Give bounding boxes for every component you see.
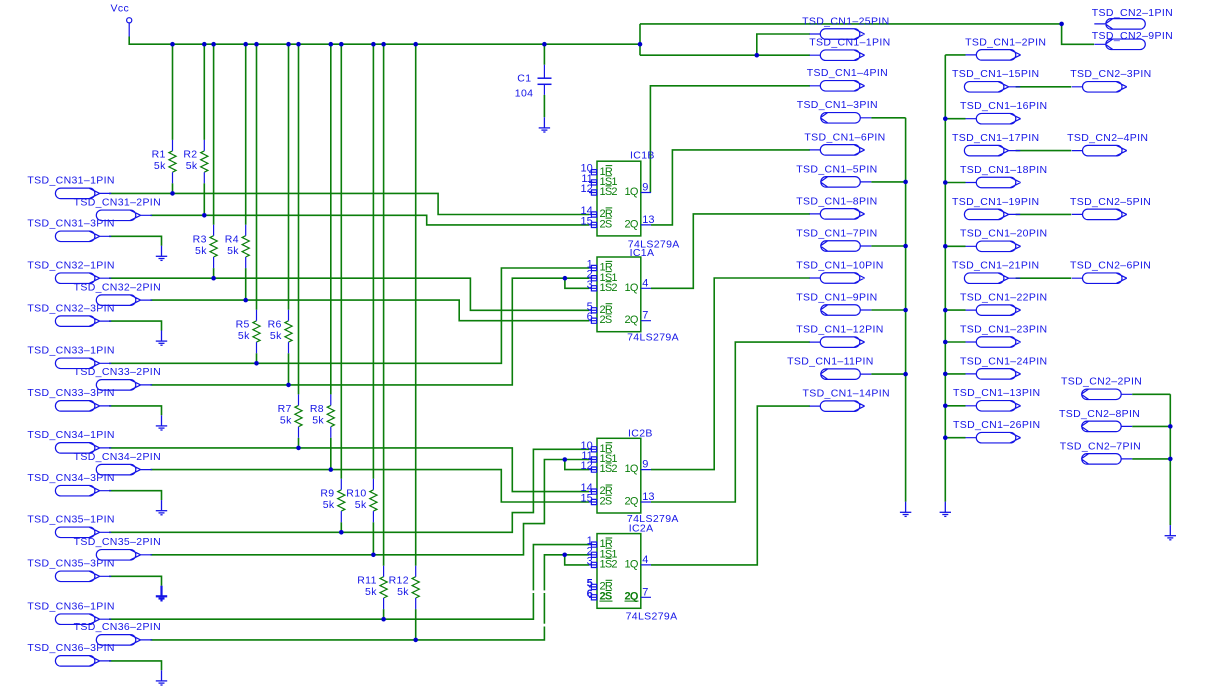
svg-text:5k: 5k — [397, 586, 409, 598]
svg-text:13: 13 — [642, 214, 654, 226]
svg-text:TSD_CN35–1PIN: TSD_CN35–1PIN — [27, 514, 114, 526]
svg-text:TSD_CN1–6PIN: TSD_CN1–6PIN — [804, 131, 885, 143]
svg-text:15: 15 — [581, 215, 593, 227]
svg-text:TSD_CN1–1PIN: TSD_CN1–1PIN — [809, 37, 890, 49]
svg-text:TSD_CN32–2PIN: TSD_CN32–2PIN — [74, 281, 161, 293]
svg-text:7: 7 — [642, 586, 648, 598]
svg-text:IC1A: IC1A — [630, 247, 655, 259]
svg-text:6: 6 — [587, 588, 593, 600]
svg-text:Vcc: Vcc — [111, 2, 130, 14]
svg-text:TSD_CN1–25PIN: TSD_CN1–25PIN — [802, 15, 889, 27]
svg-text:TSD_CN1–8PIN: TSD_CN1–8PIN — [796, 195, 877, 207]
svg-text:5k: 5k — [186, 160, 198, 172]
svg-text:TSD_CN35–3PIN: TSD_CN35–3PIN — [27, 558, 114, 570]
svg-text:R5: R5 — [236, 319, 250, 331]
svg-text:TSD_CN32–3PIN: TSD_CN32–3PIN — [27, 302, 114, 314]
svg-text:R12: R12 — [389, 575, 409, 587]
svg-text:TSD_CN35–2PIN: TSD_CN35–2PIN — [74, 536, 161, 548]
svg-text:TSD_CN1–4PIN: TSD_CN1–4PIN — [807, 67, 888, 79]
svg-text:TSD_CN2–2PIN: TSD_CN2–2PIN — [1061, 376, 1142, 388]
svg-text:TSD_CN33–1PIN: TSD_CN33–1PIN — [27, 345, 114, 357]
svg-text:2S: 2S — [600, 591, 612, 603]
svg-text:TSD_CN1–9PIN: TSD_CN1–9PIN — [796, 291, 877, 303]
svg-text:5k: 5k — [312, 415, 324, 427]
svg-text:1S2: 1S2 — [600, 463, 618, 475]
svg-text:15: 15 — [581, 493, 593, 505]
svg-text:TSD_CN1–13PIN: TSD_CN1–13PIN — [953, 387, 1040, 399]
svg-text:TSD_CN34–3PIN: TSD_CN34–3PIN — [27, 472, 114, 484]
svg-text:1S2: 1S2 — [600, 559, 618, 571]
svg-text:2Q: 2Q — [625, 495, 639, 507]
svg-text:TSD_CN36–3PIN: TSD_CN36–3PIN — [27, 642, 114, 654]
svg-text:2Q: 2Q — [625, 218, 639, 230]
svg-text:TSD_CN33–3PIN: TSD_CN33–3PIN — [27, 387, 114, 399]
svg-text:5k: 5k — [195, 245, 207, 257]
svg-text:TSD_CN1–5PIN: TSD_CN1–5PIN — [796, 163, 877, 175]
svg-text:TSD_CN1–10PIN: TSD_CN1–10PIN — [796, 259, 883, 271]
svg-text:TSD_CN1–17PIN: TSD_CN1–17PIN — [952, 132, 1039, 144]
svg-text:5k: 5k — [365, 586, 377, 598]
svg-text:1S2: 1S2 — [600, 282, 618, 294]
svg-text:7: 7 — [642, 310, 648, 322]
svg-text:3: 3 — [587, 279, 593, 291]
svg-text:5k: 5k — [355, 499, 367, 511]
svg-text:74LS279A: 74LS279A — [627, 332, 679, 344]
svg-text:9: 9 — [642, 182, 648, 194]
svg-text:TSD_CN1–26PIN: TSD_CN1–26PIN — [953, 419, 1040, 431]
svg-text:TSD_CN34–1PIN: TSD_CN34–1PIN — [27, 429, 114, 441]
svg-text:6: 6 — [587, 311, 593, 323]
svg-text:TSD_CN1–14PIN: TSD_CN1–14PIN — [803, 388, 890, 400]
svg-text:IC2A: IC2A — [629, 523, 654, 535]
svg-text:1S2: 1S2 — [600, 186, 618, 198]
svg-text:TSD_CN32–1PIN: TSD_CN32–1PIN — [27, 259, 114, 271]
svg-text:TSD_CN1–11PIN: TSD_CN1–11PIN — [787, 356, 874, 368]
svg-text:5k: 5k — [238, 330, 250, 342]
svg-text:3: 3 — [587, 555, 593, 567]
svg-text:TSD_CN2–8PIN: TSD_CN2–8PIN — [1059, 408, 1140, 420]
svg-text:TSD_CN2–7PIN: TSD_CN2–7PIN — [1060, 440, 1141, 452]
svg-text:TSD_CN2–4PIN: TSD_CN2–4PIN — [1067, 132, 1148, 144]
svg-text:5k: 5k — [323, 499, 335, 511]
svg-text:1Q: 1Q — [625, 186, 639, 198]
svg-text:13: 13 — [642, 491, 654, 503]
svg-text:2Q: 2Q — [625, 591, 639, 603]
svg-text:TSD_CN1–22PIN: TSD_CN1–22PIN — [960, 292, 1047, 304]
svg-text:TSD_CN2–6PIN: TSD_CN2–6PIN — [1070, 260, 1151, 272]
svg-text:TSD_CN1–21PIN: TSD_CN1–21PIN — [952, 260, 1039, 272]
svg-text:TSD_CN1–15PIN: TSD_CN1–15PIN — [952, 68, 1039, 80]
svg-text:TSD_CN31–3PIN: TSD_CN31–3PIN — [27, 218, 114, 230]
svg-text:TSD_CN34–2PIN: TSD_CN34–2PIN — [74, 451, 161, 463]
svg-text:2S: 2S — [600, 218, 612, 230]
svg-text:1Q: 1Q — [625, 559, 639, 571]
svg-text:12: 12 — [581, 183, 593, 195]
svg-text:C1: C1 — [517, 73, 531, 85]
svg-text:TSD_CN1–7PIN: TSD_CN1–7PIN — [796, 227, 877, 239]
svg-text:R3: R3 — [193, 234, 207, 246]
svg-text:IC1B: IC1B — [630, 150, 655, 162]
svg-text:TSD_CN1–3PIN: TSD_CN1–3PIN — [797, 99, 878, 111]
svg-text:74LS279A: 74LS279A — [626, 610, 678, 622]
svg-text:1Q: 1Q — [625, 463, 639, 475]
svg-text:TSD_CN1–2PIN: TSD_CN1–2PIN — [965, 36, 1046, 48]
svg-text:R1: R1 — [152, 149, 166, 161]
svg-text:12: 12 — [581, 460, 593, 472]
svg-text:5k: 5k — [270, 330, 282, 342]
svg-text:1Q: 1Q — [625, 282, 639, 294]
svg-text:TSD_CN2–5PIN: TSD_CN2–5PIN — [1070, 196, 1151, 208]
svg-text:2Q: 2Q — [625, 314, 639, 326]
svg-text:104: 104 — [515, 87, 534, 99]
svg-text:TSD_CN1–12PIN: TSD_CN1–12PIN — [796, 324, 883, 336]
svg-text:4: 4 — [642, 554, 648, 566]
svg-text:TSD_CN36–1PIN: TSD_CN36–1PIN — [27, 600, 114, 612]
svg-text:TSD_CN1–16PIN: TSD_CN1–16PIN — [960, 100, 1047, 112]
svg-text:2S: 2S — [600, 495, 612, 507]
svg-text:TSD_CN36–2PIN: TSD_CN36–2PIN — [74, 621, 161, 633]
svg-text:TSD_CN2–1PIN: TSD_CN2–1PIN — [1092, 7, 1173, 19]
svg-text:R2: R2 — [183, 149, 197, 161]
svg-text:TSD_CN1–18PIN: TSD_CN1–18PIN — [960, 164, 1047, 176]
svg-text:R10: R10 — [346, 488, 366, 500]
svg-text:R4: R4 — [225, 234, 239, 246]
svg-text:2S: 2S — [600, 314, 612, 326]
svg-text:TSD_CN2–3PIN: TSD_CN2–3PIN — [1070, 68, 1151, 80]
svg-text:R8: R8 — [310, 403, 324, 415]
svg-text:TSD_CN1–19PIN: TSD_CN1–19PIN — [952, 196, 1039, 208]
svg-text:TSD_CN2–9PIN: TSD_CN2–9PIN — [1092, 30, 1173, 42]
svg-text:9: 9 — [642, 459, 648, 471]
svg-text:5k: 5k — [227, 245, 239, 257]
svg-text:R7: R7 — [278, 403, 292, 415]
svg-text:5k: 5k — [280, 415, 292, 427]
svg-text:IC2B: IC2B — [628, 427, 653, 439]
svg-text:TSD_CN1–20PIN: TSD_CN1–20PIN — [960, 228, 1047, 240]
svg-text:TSD_CN33–2PIN: TSD_CN33–2PIN — [74, 366, 161, 378]
svg-text:TSD_CN1–24PIN: TSD_CN1–24PIN — [960, 355, 1047, 367]
svg-text:4: 4 — [642, 277, 648, 289]
svg-text:R6: R6 — [268, 319, 282, 331]
svg-text:TSD_CN1–23PIN: TSD_CN1–23PIN — [960, 323, 1047, 335]
svg-text:R9: R9 — [320, 488, 334, 500]
svg-text:R11: R11 — [357, 575, 377, 587]
svg-text:TSD_CN31–1PIN: TSD_CN31–1PIN — [27, 175, 114, 187]
svg-text:5k: 5k — [154, 160, 166, 172]
svg-text:TSD_CN31–2PIN: TSD_CN31–2PIN — [74, 197, 161, 209]
